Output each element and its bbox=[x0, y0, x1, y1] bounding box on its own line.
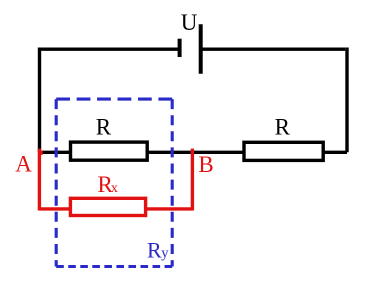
svg-text:U: U bbox=[181, 10, 198, 35]
svg-text:R: R bbox=[275, 114, 291, 139]
svg-text:B: B bbox=[198, 152, 213, 177]
svg-text:A: A bbox=[15, 151, 32, 176]
svg-text:R: R bbox=[96, 114, 112, 139]
